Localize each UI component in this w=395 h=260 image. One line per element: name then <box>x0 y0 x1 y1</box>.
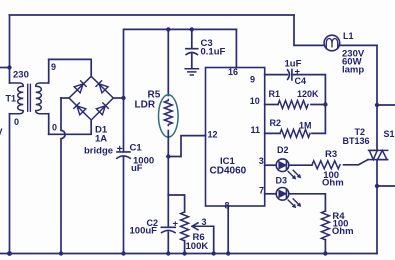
svg-text:L1: L1 <box>343 31 354 41</box>
svg-text:10: 10 <box>250 96 260 106</box>
svg-text:0: 0 <box>14 117 19 127</box>
junction rail bridge-left <box>59 251 63 255</box>
transformer T1 secondary coil <box>36 83 49 114</box>
wire D3 to R4 <box>289 194 326 211</box>
svg-text:+: + <box>117 143 123 155</box>
preset R6 zigzag <box>181 212 189 241</box>
wire R3 to triac gate <box>344 160 369 165</box>
IC1 box <box>206 68 265 207</box>
junction S1 bottom <box>375 184 379 188</box>
wire pin 10 lead <box>265 104 278 106</box>
svg-text:9: 9 <box>51 62 56 72</box>
wire top-right drop <box>294 15 324 45</box>
LED D2 <box>276 159 301 179</box>
capacitor C3 wire upper <box>191 29 193 48</box>
wire lamp to right corner <box>340 44 377 46</box>
junction bridge +V <box>121 96 125 100</box>
junction S1 top <box>375 103 379 107</box>
svg-text:230: 230 <box>13 70 29 81</box>
wire 9V to bridge top <box>49 59 91 76</box>
svg-text:100K: 100K <box>186 241 209 252</box>
junction rail R6 <box>182 251 186 255</box>
transformer T1 core <box>28 84 31 111</box>
svg-text:1M: 1M <box>299 121 312 131</box>
wire pin 9 to C4 <box>265 74 288 76</box>
wire right vertical upper (lamp to triac) <box>376 45 378 150</box>
wire S1 stub upper <box>377 104 395 106</box>
svg-text:bridge: bridge <box>84 146 113 157</box>
wire mains stub left <box>0 67 10 69</box>
junction C3 top <box>190 27 194 31</box>
LDR R5 wire upper <box>167 29 169 95</box>
wire left vertical upper <box>9 15 11 83</box>
resistor R2 zigzag <box>280 129 310 137</box>
capacitor C1 wire upper <box>123 98 125 152</box>
svg-text:100uF: 100uF <box>130 226 158 237</box>
capacitor C2 wire upper <box>167 195 169 227</box>
junction rail pin8 <box>226 251 230 255</box>
svg-text:BT136: BT136 <box>343 136 370 146</box>
capacitor C2 plates <box>161 227 175 232</box>
triac T2 <box>368 150 388 159</box>
svg-text:16: 16 <box>228 67 238 77</box>
wire R6 branch <box>168 195 184 212</box>
wire bridge left vertex lead <box>61 97 69 99</box>
wire pin 3 lead <box>265 164 277 166</box>
junction rail C2 <box>166 251 170 255</box>
svg-text:CD4060: CD4060 <box>210 165 247 176</box>
wire R6 to rail <box>184 241 186 254</box>
wire pin 12 link <box>168 136 205 157</box>
resistor R3 zigzag <box>312 161 340 169</box>
svg-text:S1: S1 <box>384 129 395 139</box>
capacitor C3 plates <box>186 49 198 55</box>
wire pin 8 drop <box>227 206 229 254</box>
svg-text:9: 9 <box>250 75 255 85</box>
svg-text:7: 7 <box>259 186 264 196</box>
wire bottom rail <box>0 253 377 255</box>
wire R1 right lead <box>311 104 325 106</box>
svg-text:R2: R2 <box>270 118 282 128</box>
wire left vertical lower <box>9 114 11 254</box>
junction rail R4 <box>323 251 327 255</box>
svg-text:T1: T1 <box>6 94 17 104</box>
svg-text:1A: 1A <box>95 133 107 144</box>
wire C4 to corner <box>292 75 326 105</box>
lamp L1 <box>324 35 340 51</box>
ground symbol <box>185 69 198 75</box>
svg-text:C4: C4 <box>295 76 307 86</box>
svg-text:0: 0 <box>52 123 57 133</box>
wire R2 right lead and riser <box>312 105 325 134</box>
svg-text:D3: D3 <box>276 176 288 186</box>
svg-text:3: 3 <box>202 217 207 227</box>
capacitor C3 wire lower <box>191 54 193 69</box>
junction rail C1 <box>121 251 125 255</box>
svg-text:0.1uF: 0.1uF <box>201 47 226 58</box>
svg-text:12: 12 <box>208 129 218 139</box>
svg-text:C1: C1 <box>130 143 143 154</box>
svg-text:R3: R3 <box>325 149 337 160</box>
capacitor C1 wire lower <box>123 157 125 254</box>
capacitor C4 plates <box>288 69 292 80</box>
junction RC node <box>323 102 327 106</box>
wire bridge right vertex to +V node <box>113 97 123 99</box>
wire 0V to bridge bottom <box>49 120 91 134</box>
wire pin 11 lead <box>265 132 280 134</box>
junction LDR bottom <box>166 154 170 158</box>
wire pin 7 lead <box>265 193 277 195</box>
svg-text:uF: uF <box>131 163 143 174</box>
preset R6 wiper arrow <box>192 223 214 230</box>
svg-text:LDR: LDR <box>135 100 156 111</box>
svg-text:Ohm: Ohm <box>332 226 354 237</box>
wire secondary 9V riser <box>48 59 50 83</box>
LDR R5 ellipse <box>159 95 179 137</box>
resistor R1 zigzag <box>278 101 308 109</box>
wire top rail <box>10 14 295 16</box>
svg-text:Ohm: Ohm <box>322 178 344 189</box>
LDR R5 zigzag <box>164 100 172 126</box>
wire LDR node to C2/R6 junction <box>167 157 169 196</box>
capacitor C2 wire lower <box>167 232 169 253</box>
wire +V riser and top bus <box>124 29 237 98</box>
LDR R5 wire lower <box>167 131 169 157</box>
wire pin16 drop <box>235 29 237 67</box>
LED D3 <box>276 188 301 208</box>
svg-text:lamp: lamp <box>342 65 364 76</box>
wire D2 to R3 <box>289 164 312 166</box>
bridge diode bottom-right <box>96 102 109 115</box>
bridge rectifier D1 diamond <box>69 76 113 120</box>
svg-text:V: V <box>0 127 3 137</box>
wire S1 stub lower <box>377 185 395 187</box>
wire R4 to rail <box>324 240 326 254</box>
bridge diode top-right <box>96 80 109 93</box>
capacitor C1 plates <box>117 152 130 158</box>
junction LDR top <box>166 27 170 31</box>
svg-text:11: 11 <box>251 125 261 135</box>
junction rail left <box>7 251 12 256</box>
junction mains <box>7 65 11 69</box>
wire wiper to rail <box>213 226 215 253</box>
svg-text:D2: D2 <box>277 145 289 155</box>
svg-text:120K: 120K <box>297 89 319 99</box>
wire secondary 0V drop <box>48 114 50 135</box>
resistor R4 zigzag <box>321 211 329 240</box>
svg-text:R1: R1 <box>269 89 281 99</box>
svg-text:+: + <box>173 219 179 230</box>
svg-text:3: 3 <box>259 156 264 166</box>
svg-text:8: 8 <box>225 201 230 211</box>
wire right vertical lower (triac to bottom rail) <box>376 160 378 254</box>
transformer T1 primary coil <box>10 83 24 114</box>
junction rail wiper <box>212 251 216 255</box>
bridge diode top-left <box>74 80 87 93</box>
bridge diode bottom-left <box>73 102 86 115</box>
wire bridge-left vertical with hop <box>61 98 65 254</box>
